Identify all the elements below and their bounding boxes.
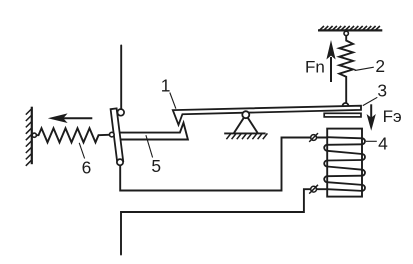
svg-text:3: 3 [377, 80, 387, 100]
svg-text:Fn: Fn [305, 57, 325, 76]
svg-text:Fэ: Fэ [383, 107, 402, 126]
svg-text:4: 4 [378, 133, 388, 153]
svg-text:6: 6 [82, 157, 92, 177]
svg-text:2: 2 [375, 56, 385, 76]
svg-text:5: 5 [151, 156, 161, 176]
svg-text:1: 1 [161, 76, 171, 96]
